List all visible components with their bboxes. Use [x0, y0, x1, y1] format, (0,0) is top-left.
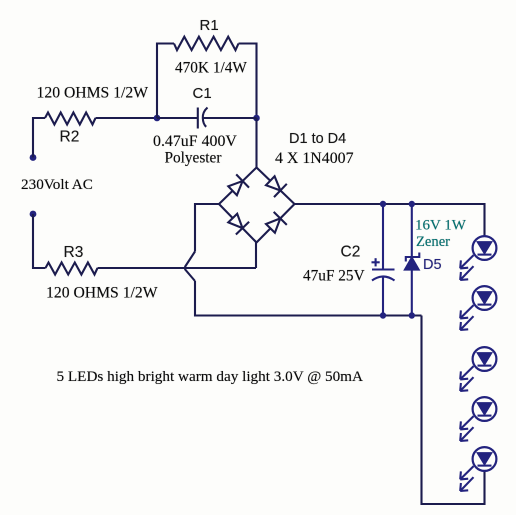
svg-text:5 LEDs high bright warm day li: 5 LEDs high bright warm day light 3.0V @…	[57, 368, 363, 385]
wire	[157, 44, 174, 119]
node AC terminal top	[30, 154, 37, 161]
diode D2	[266, 176, 287, 197]
label C1 value 0.47uF 400V	[153, 133, 237, 150]
label 230Volt AC	[21, 176, 93, 193]
wire	[219, 168, 295, 243]
wire	[422, 316, 485, 505]
svg-text:Zener: Zener	[416, 234, 450, 250]
svg-text:47uF 25V: 47uF 25V	[303, 268, 365, 285]
label C2 value 47uF 25V	[303, 268, 365, 285]
label C2	[341, 244, 361, 261]
node D5 bottom	[409, 312, 415, 318]
label R2	[60, 128, 80, 145]
svg-text:D5: D5	[423, 257, 442, 273]
wire	[98, 267, 257, 269]
wire	[295, 204, 485, 236]
wire	[255, 243, 257, 269]
svg-text:Polyester: Polyester	[165, 150, 222, 167]
resistor R1	[174, 37, 239, 50]
label R1 value 470K 1/4W	[175, 60, 247, 77]
LED LED1	[460, 236, 496, 280]
wire	[33, 118, 45, 158]
wire	[33, 214, 46, 268]
node C2 top	[380, 201, 386, 207]
svg-text:C2: C2	[341, 244, 361, 261]
label R1	[200, 17, 219, 34]
zener diode D5	[405, 204, 419, 316]
diode D1	[228, 174, 249, 195]
capacitor C2	[372, 204, 395, 316]
svg-text:D1 to D4: D1 to D4	[289, 131, 346, 147]
svg-text:0.47uF 400V: 0.47uF 400V	[153, 133, 237, 150]
node D5 top	[409, 201, 415, 207]
node J1	[154, 115, 161, 122]
svg-text:C1: C1	[193, 85, 212, 102]
LED LED5	[460, 447, 496, 491]
wire	[96, 117, 158, 119]
svg-text:230Volt AC: 230Volt AC	[21, 176, 93, 193]
wire	[195, 204, 219, 252]
svg-text:120 OHMS 1/2W: 120 OHMS 1/2W	[37, 85, 149, 102]
svg-text:16V 1W: 16V 1W	[415, 217, 467, 233]
label C1	[193, 85, 212, 102]
wire	[203, 117, 256, 119]
label D5	[423, 257, 442, 273]
diode D4	[266, 212, 287, 233]
label R3 value 120 OHMS 1/2W	[46, 285, 158, 302]
wire	[195, 281, 422, 316]
node J2	[253, 115, 260, 122]
svg-text:R3: R3	[64, 244, 84, 261]
wire	[157, 117, 198, 119]
svg-text:470K 1/4W: 470K 1/4W	[175, 60, 247, 77]
svg-text:120 OHMS 1/2W: 120 OHMS 1/2W	[46, 285, 158, 302]
label R2 value 120 OHMS 1/2W	[37, 85, 149, 102]
wire	[255, 118, 257, 168]
resistor R3	[46, 263, 98, 275]
capacitor C1	[198, 108, 208, 129]
label D1 to D4	[289, 131, 346, 147]
label R3	[64, 244, 84, 261]
label 16V 1W	[415, 217, 467, 233]
svg-text:R1: R1	[200, 17, 219, 34]
LED LED4	[460, 397, 496, 441]
label caption 5 LEDs	[57, 368, 363, 385]
wire hop crossing	[185, 252, 195, 282]
label Zener	[416, 234, 450, 250]
LED LED3	[460, 347, 496, 391]
diode D3	[228, 214, 249, 235]
label 4 X 1N4007	[275, 150, 354, 167]
svg-text:R2: R2	[60, 128, 80, 145]
label C1 type Polyester	[165, 150, 222, 167]
resistor R2	[45, 113, 96, 125]
wire	[239, 44, 257, 119]
svg-text:4 X 1N4007: 4 X 1N4007	[275, 150, 354, 167]
node C2 bottom	[380, 312, 386, 318]
node AC terminal bottom	[30, 211, 37, 218]
LED LED2	[460, 286, 496, 330]
